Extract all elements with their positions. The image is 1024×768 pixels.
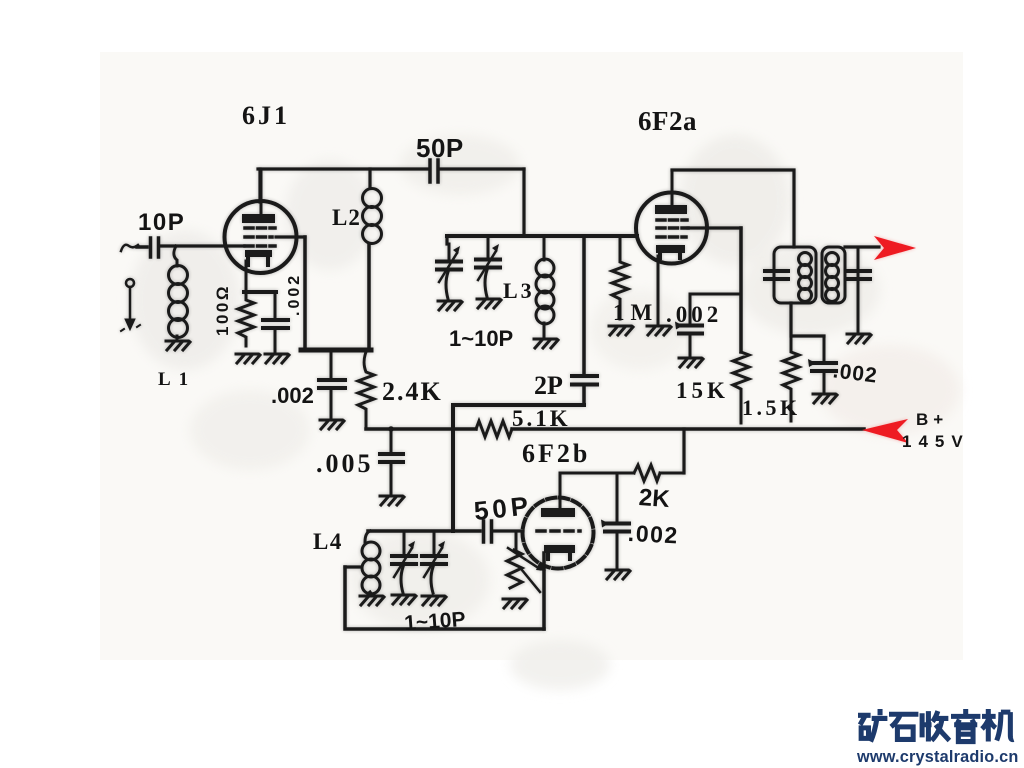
svg-text:.002: .002 [271,383,314,408]
watermark glyph ji [982,709,1014,742]
ground under coupling .002 [320,420,344,429]
svg-text:50P: 50P [416,133,464,163]
6J1 plate [242,169,275,223]
6F2a grid dashes [657,220,688,237]
resistor 1.5K [783,336,799,421]
transformer secondary winding [826,253,839,302]
wire 2P stem from tank rail [582,236,586,373]
tube 6F2b envelope [523,498,594,569]
tank rail left stub [445,236,448,244]
ground under L4 [360,596,384,605]
tube 6F2a envelope [636,193,707,264]
ground under .005 [380,496,404,505]
svg-text:.005: .005 [316,449,374,478]
top rail to 50P [258,167,429,170]
svg-text:2K: 2K [638,484,671,513]
ground under varcap2 [477,299,501,308]
svg-text:L4: L4 [313,529,343,554]
scanned paper background [100,52,963,660]
top rail 50P to corner [440,167,524,170]
antenna input squiggle [121,245,138,251]
ground under 1M [609,326,633,335]
svg-text:.002: .002 [666,302,722,327]
ground under varcap4 [422,596,446,605]
wire corner down to tank rail [522,169,525,236]
L4 tank top rail [368,529,480,533]
watermark glyph kuang [858,709,887,742]
svg-text:1~10P: 1~10P [449,326,513,351]
wire cathode bypass feed [690,293,741,296]
variable capacitor 2 (1~10P) [476,236,500,297]
ground under secondary [847,334,871,343]
ground under 6F2a cathode [647,326,671,335]
6F2b plate [541,473,575,517]
ground under grid leak [503,599,527,608]
ground under cathode .002 [265,354,289,363]
6F2a plate [655,170,687,214]
6J1 grid-2 stub to right [276,235,305,238]
ground under 6F2b .002 [606,570,630,579]
svg-text:6F2a: 6F2a [638,106,697,136]
antenna jack [121,279,140,331]
capacitor .005 [380,429,403,494]
node .005 junction [388,426,394,432]
capacitor .002 (6F2b plate) [601,473,629,568]
watermark glyph shi [889,714,918,739]
svg-text:1~10P: 1~10P [404,608,467,635]
wire secondary cap stem [857,247,860,332]
6J1 cathode [245,250,272,292]
wire right stub down to 15K [739,228,743,352]
ground under L1 [166,341,190,350]
capacitor .002 (6F2a) [675,294,702,356]
transformer secondary box [822,247,845,303]
capacitor 50P bottom [484,521,492,542]
svg-text:2.4K: 2.4K [382,377,443,406]
wire 50P to 6F2b grid [494,529,523,532]
variable capacitor 4 (1~10P) [422,531,446,593]
svg-text:L3: L3 [503,278,535,303]
svg-text:B+: B+ [916,410,948,429]
6F2b grid leak resistor [507,533,546,592]
B+ rail right segment [512,427,864,431]
ground under varcap3 [392,595,416,604]
variable capacitor 3 (1~10P) [392,531,416,593]
svg-text:www.crystalradio.cn: www.crystalradio.cn [856,748,1019,766]
ground under varcap1 [438,301,462,310]
wire 2K feed from B+ [682,429,685,473]
L4 cathode tap [345,565,360,568]
6J1 grid dashes [245,228,275,246]
svg-text:50P: 50P [472,490,533,526]
wire input to 6J1 grid [161,244,244,247]
svg-text:10P: 10P [138,209,185,236]
wire secondary top to output [845,245,879,248]
transformer tuning cap right [847,271,870,279]
6J1 cathode junction bar [244,290,276,294]
6F2b cathode [544,545,575,559]
oscillator tank rail [447,234,637,238]
inductor L3 [536,236,554,337]
watermark glyph yin [951,709,980,742]
resistor 2.4K [358,352,374,429]
ground under 100ohm [236,354,260,363]
transformer primary box [774,247,816,303]
capacitor 50P top [430,160,438,182]
6F2a grid-2 stub right [688,226,741,229]
inductor L2 [363,189,382,244]
wire 6J1 plate to top rail [258,169,261,202]
svg-text:5.1K: 5.1K [512,406,571,431]
transformer tuning cap left [765,271,788,279]
svg-text:.002: .002 [627,520,679,549]
resistor 100ohm [238,292,254,346]
svg-text:2P: 2P [534,371,563,400]
resistor 15K [733,352,749,423]
6F2b plate rail with resistor 2K [560,465,684,481]
ground under 6F2a .002 [679,358,703,367]
capacitor .002 cathode bypass [263,292,288,352]
svg-text:L1: L1 [158,369,196,390]
6F2a cathode [656,245,685,258]
tube 6J1 envelope [225,201,297,273]
transformer primary winding [799,253,812,302]
capacitor .002 coupling [319,352,345,418]
red B+ arrow [862,419,908,443]
svg-text:.002: .002 [286,273,303,316]
svg-text:15K: 15K [676,378,729,403]
variable capacitor 1 (1~10P) [437,244,461,299]
svg-text:1.5K: 1.5K [742,395,801,420]
inductor L1 [169,246,188,341]
svg-text:145V: 145V [902,432,970,451]
inductor L4 [362,531,380,596]
ground under .002 near B+ [813,394,837,403]
wire plate top to transformer [672,170,794,247]
svg-text:1M: 1M [613,300,658,325]
capacitor .002 (near B+) [808,336,836,392]
red output arrow [874,236,916,260]
junction bar under L2 [301,348,371,353]
watermark glyph shou [920,711,949,741]
resistor 5.1K [476,421,512,437]
capacitor 2P [572,376,597,404]
capacitor C-10P [137,238,159,257]
wire L2 bottom down to junction bar [367,245,371,348]
L4 tank left/bottom wire to cathode [345,567,544,629]
6F2a cathode lead [657,256,660,324]
svg-text:100Ω: 100Ω [213,284,232,336]
wire primary bottom jog [791,303,824,336]
ground under L3 [534,339,558,348]
wire L2 branch from top rail [368,169,371,188]
svg-text:6J1: 6J1 [242,101,290,130]
resistor 1M [612,236,628,319]
wire 2P to 6F2b grid circuit [453,405,584,531]
svg-text:6F2b: 6F2b [522,439,590,468]
svg-text:L2: L2 [332,205,361,230]
6F2b grid dashes [537,529,580,533]
wire 6J1 right down to junction bar [303,237,307,348]
B+ rail left segment [366,427,476,431]
6F2b cathode lead down [542,553,546,629]
